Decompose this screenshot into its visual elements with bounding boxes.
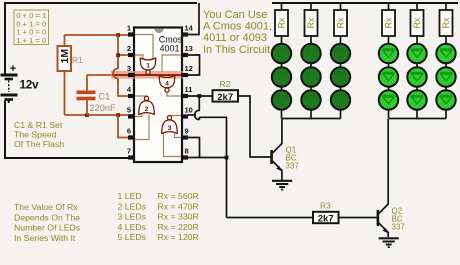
NOR gate 1: [140, 58, 156, 70]
pin 11: [181, 85, 192, 98]
wire rail drop column 1: [281, 3, 283, 10]
NOR truth table note: [14, 10, 49, 45]
LED column 4 row 3 (lit): [379, 90, 398, 109]
resistor R3 2k7: [313, 212, 339, 223]
svg-text:2 LEDs: 2 LEDs: [118, 201, 147, 211]
resistor Rx column 2: [305, 10, 318, 36]
svg-text:4001: 4001: [159, 44, 179, 54]
pin 5: [127, 106, 135, 119]
note: value of Rx: [14, 202, 81, 243]
wire LED bottom stub: [281, 110, 283, 119]
wire LED link: [281, 87, 283, 90]
svg-text:1 LED: 1 LED: [118, 191, 142, 201]
svg-text:Rx: Rx: [306, 17, 316, 28]
wire cathode bus left group: [282, 118, 341, 120]
svg-text:C1 & R1 Set: C1 & R1 Set: [14, 120, 63, 130]
wire cathode bus right group: [389, 118, 447, 120]
note: LED resistor table: [118, 191, 199, 242]
wire pins1/2 net hop redrawn over highlight: [113, 62, 118, 84]
wire C1 legs (orange): [86, 75, 88, 115]
wire branch down to pin 6 (orange): [118, 115, 134, 138]
LED column 6 row 2 (lit): [436, 67, 455, 86]
highlighted net pin 3 to pin 12 (red glow): [111, 71, 183, 79]
wire +12V top rail right segment: [272, 2, 458, 4]
pin 1: [127, 24, 135, 37]
svg-text:8: 8: [185, 147, 189, 156]
svg-text:1: 1: [146, 63, 150, 70]
LED column 4 row 1 (lit): [379, 44, 398, 63]
resistor R2 2k7: [213, 90, 239, 101]
svg-text:337: 337: [392, 223, 406, 232]
pin 7: [127, 147, 135, 160]
note: You Can Use: [203, 9, 272, 56]
LED column 6 row 3 (lit): [436, 90, 455, 109]
svg-text:10: 10: [185, 106, 193, 115]
transistor Q2 BC337: [378, 119, 388, 237]
node junction at pin 2 branch: [116, 53, 120, 57]
internal wire gate 4 output to pin 11: [167, 91, 181, 96]
LED column 2 row 1 (dark): [301, 44, 320, 63]
wire LED bottom stub: [340, 110, 342, 119]
wire pin 10 stub: [187, 114, 196, 116]
svg-text:5: 5: [127, 106, 131, 115]
svg-text:7: 7: [127, 147, 131, 156]
svg-text:R3: R3: [320, 201, 331, 211]
resistor Rx column 4: [382, 10, 395, 36]
wire LED link: [445, 87, 447, 90]
wire pins 8/9 to vertical: [187, 157, 227, 159]
svg-text:R2: R2: [220, 79, 231, 89]
wire R2 to Q1 base: [238, 96, 271, 157]
wire rail drop column 6: [445, 3, 447, 10]
svg-text:Rx: Rx: [336, 17, 346, 28]
LED column 1 row 2 (dark): [272, 67, 291, 86]
svg-text:Rx: Rx: [412, 17, 422, 28]
pin 13: [181, 44, 193, 57]
pin 2: [127, 44, 135, 57]
label Q2 BC 337: [392, 207, 406, 232]
ground below Q1: [272, 181, 292, 190]
NOR gate 2: [139, 101, 155, 115]
node junction pins1/2 net at R1 top: [116, 33, 120, 37]
wire LED link: [416, 63, 418, 67]
resistor Rx column 5: [411, 10, 424, 36]
internal wire pin 2 to gate 1 input: [134, 55, 143, 59]
svg-text:R1: R1: [72, 55, 83, 65]
pin 8: [181, 147, 189, 160]
internal wire pin 13 to gate 4 input: [162, 55, 181, 72]
ground below Q2: [379, 238, 399, 247]
wire LED link: [340, 87, 342, 90]
wire LED link: [310, 63, 312, 67]
wire +12V top rail left segment: [5, 2, 197, 4]
node junction pin 6 branch: [116, 113, 120, 117]
svg-text:Rx = 220R: Rx = 220R: [158, 222, 199, 232]
internal wire pin 6 to gate 2 input: [134, 115, 149, 140]
pin 14: [181, 24, 194, 37]
svg-text:6: 6: [127, 127, 131, 136]
svg-text:Number Of LEDs: Number Of LEDs: [14, 223, 81, 233]
svg-text:Rx = 330R: Rx = 330R: [158, 212, 199, 222]
wire across to vertical drop: [199, 117, 226, 217]
svg-text:You Can Use: You Can Use: [203, 9, 267, 21]
svg-text:337: 337: [286, 162, 300, 171]
svg-text:1 + 1 = 0: 1 + 1 = 0: [16, 36, 46, 45]
svg-text:Rx = 120R: Rx = 120R: [158, 232, 199, 242]
svg-text:C1: C1: [99, 92, 111, 102]
LED column 1 row 1 (dark): [272, 44, 291, 63]
wire pin 11 net down with hop over pin 10 wire: [195, 96, 200, 120]
wire LED link: [416, 87, 418, 90]
wire pin 14 to +12V rail: [187, 3, 199, 35]
wire pin 9 to pin 8: [187, 138, 200, 158]
transistor Q1 BC337: [272, 119, 282, 180]
wire ground rail to IC pin 7: [4, 157, 134, 159]
svg-text:Of The Flash: Of The Flash: [14, 139, 64, 149]
svg-text:The Speed: The Speed: [14, 130, 57, 140]
internal wire pin 1 to gate 1 input: [134, 35, 153, 59]
svg-text:11: 11: [185, 85, 193, 94]
svg-text:2: 2: [127, 44, 131, 53]
pin 9: [181, 127, 189, 140]
svg-text:The Value Of Rx: The Value Of Rx: [14, 202, 78, 212]
wire resistor to first LED: [445, 36, 447, 44]
resistor R1 1M: [58, 46, 72, 71]
pin 12: [181, 64, 193, 77]
svg-text:2k7: 2k7: [318, 213, 334, 224]
wire resistor to first LED: [281, 36, 283, 44]
internal wire gate 3 output to pin 10: [170, 116, 182, 118]
LED column 3 row 3 (dark): [331, 90, 350, 109]
svg-text:In This Circuit: In This Circuit: [203, 44, 270, 56]
svg-text:12v: 12v: [20, 78, 40, 92]
wire resistor to first LED: [340, 36, 342, 44]
IC notch: [155, 29, 164, 33]
node junction C1 bottom: [85, 113, 89, 117]
svg-text:12: 12: [185, 64, 193, 73]
node junction pin 11 net branch: [197, 94, 201, 98]
wire R3 to Q2 base: [339, 217, 378, 219]
wire LED bottom stub: [416, 110, 418, 119]
svg-text:A Cmos 4001,: A Cmos 4001,: [203, 21, 272, 33]
battery B1 12v: [1, 75, 18, 100]
LED column 2 row 3 (dark): [301, 90, 320, 109]
svg-text:+: +: [10, 63, 16, 75]
pin 4: [127, 85, 135, 98]
wire LED bottom stub: [310, 110, 312, 119]
op-amp region: IC U1 Cmos 4001 body: [134, 28, 182, 163]
NOR gate 3: [162, 120, 178, 134]
svg-text:Rx: Rx: [441, 17, 451, 28]
LED column 4 row 2 (lit): [379, 67, 398, 86]
wire R1 bottom to pin 5 (orange): [65, 71, 135, 115]
svg-text:220nF: 220nF: [90, 103, 116, 113]
LED column 5 row 2 (lit): [407, 67, 426, 86]
svg-text:Rx: Rx: [384, 17, 394, 28]
capacitor C1 220nF: [77, 91, 96, 101]
svg-text:1: 1: [127, 24, 131, 33]
svg-text:4 LEDs: 4 LEDs: [118, 222, 147, 232]
LED column 5 row 1 (lit): [407, 44, 426, 63]
internal wire gate 3 inputs to pins 8 and 9: [164, 133, 182, 157]
wire battery positive lead (left rail upper): [4, 2, 6, 74]
svg-text:14: 14: [185, 24, 194, 33]
svg-text:Rx = 560R: Rx = 560R: [158, 191, 199, 201]
svg-text:3 LEDs: 3 LEDs: [118, 212, 147, 222]
wire to R3: [227, 217, 314, 219]
LED column 1 row 3 (dark): [272, 90, 291, 109]
resistor Rx column 6: [440, 10, 453, 36]
svg-text:4011 or 4093: 4011 or 4093: [203, 32, 267, 44]
svg-text:Rx: Rx: [277, 17, 287, 28]
wire pin 11 to R2: [187, 95, 213, 97]
svg-text:3: 3: [168, 125, 172, 132]
svg-text:3: 3: [127, 64, 131, 73]
label Q1 BC 337: [286, 146, 300, 171]
wire pins1/2 net down to pin 4 with hop over pin3 wire (orange): [113, 35, 134, 96]
svg-text:2: 2: [145, 106, 149, 113]
svg-text:Rx = 470R: Rx = 470R: [158, 201, 199, 211]
svg-text:In Series With It: In Series With It: [14, 233, 76, 243]
wire resistor to first LED: [310, 36, 312, 44]
note: C1 and R1 set the speed: [14, 120, 64, 149]
LED column 5 row 3 (lit): [407, 90, 426, 109]
wire LED bottom stub: [388, 110, 390, 119]
LED column 6 row 1 (lit): [436, 44, 455, 63]
node junction at pin 8 wire: [225, 156, 229, 160]
wire rail drop column 4: [388, 3, 390, 10]
wire C1 top to pin 3 (orange part): [87, 74, 112, 76]
resistor Rx column 1: [275, 10, 288, 36]
svg-text:1M: 1M: [59, 49, 71, 64]
wire pin 13 to pin 12: [187, 55, 200, 75]
svg-text:9: 9: [185, 127, 189, 136]
wire battery negative lead (left rail lower): [5, 100, 9, 159]
internal wire gate 2 output to pin 4: [134, 96, 147, 98]
pin 3: [127, 64, 135, 77]
wire resistor to first LED: [416, 36, 418, 44]
wire LED link: [340, 63, 342, 67]
wire LED link: [310, 87, 312, 90]
svg-text:Depends On The: Depends On The: [14, 212, 80, 222]
wire LED bottom stub: [445, 110, 447, 119]
resistor Rx column 3: [334, 10, 347, 36]
wire resistor to first LED: [388, 36, 390, 44]
wire rail drop column 2: [310, 3, 312, 10]
svg-text:13: 13: [185, 44, 193, 53]
LED column 3 row 1 (dark): [331, 44, 350, 63]
wire LED link: [388, 87, 390, 90]
pin 6: [127, 127, 135, 140]
pin 10: [181, 106, 193, 119]
wire branch to pin 2 (orange): [118, 54, 134, 56]
NOR gate 4: [159, 76, 175, 88]
wire rail drop column 5: [416, 3, 418, 10]
wire rail drop column 3: [340, 3, 342, 10]
svg-text:4: 4: [165, 81, 169, 88]
internal wire pin 5 to gate 2 input: [134, 115, 142, 117]
svg-text:5 LEDs: 5 LEDs: [118, 232, 147, 242]
LED column 3 row 2 (dark): [331, 67, 350, 86]
wire pin 3 to pin 12 (red core): [112, 74, 184, 76]
LED column 2 row 2 (dark): [301, 67, 320, 86]
wire R1 top to pin 1 (orange): [65, 35, 135, 46]
wire LED link: [281, 63, 283, 67]
wire LED link: [388, 63, 390, 67]
wire LED link: [445, 63, 447, 67]
svg-text:2k7: 2k7: [217, 92, 233, 103]
